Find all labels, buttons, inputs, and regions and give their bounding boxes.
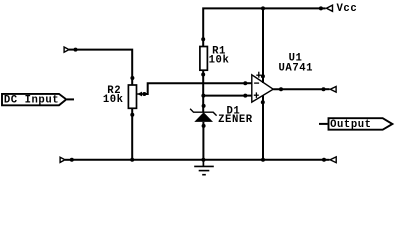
junction dot at top-left pin bbox=[74, 48, 78, 52]
resistor R1 body bbox=[200, 47, 208, 71]
connector pin bottom-left bbox=[60, 157, 72, 162]
wire Vcc top rail bbox=[203, 8, 321, 46]
op-amp U1 plus input marker bbox=[254, 92, 259, 98]
pin dot U1 V- pin bbox=[261, 100, 265, 104]
op-amp U1 minus input marker bbox=[254, 82, 259, 84]
pin dot D1 anode bbox=[202, 124, 206, 128]
pin dot R1 pin 1 bbox=[201, 37, 205, 41]
pin dot R2 pin 2 bbox=[130, 113, 134, 117]
junction dot at bottom-left pin bbox=[70, 158, 74, 162]
svg-text:DC Input: DC Input bbox=[4, 94, 59, 106]
wire D1 anode to ground rail bbox=[202, 122, 204, 160]
wire op-amp negative supply to ground rail bbox=[262, 96, 264, 160]
junction dot ground rail at ground symbol bbox=[201, 158, 205, 162]
junction dot ground rail at op-amp supply bbox=[261, 158, 265, 162]
wire op-amp output bbox=[273, 88, 323, 90]
connector pin Vcc bbox=[321, 7, 326, 9]
junction dot reference node to non-inverting input bbox=[201, 94, 205, 98]
pin dot R2 pin 1 bbox=[130, 76, 134, 80]
wire R1 bottom to zener top bbox=[202, 70, 204, 112]
potentiometer R2 wiper arrow bbox=[137, 92, 144, 97]
wire R2 wiper to op-amp inverting input bbox=[144, 83, 245, 94]
junction dot output wire end bbox=[322, 87, 326, 91]
wire stub inverting input bbox=[245, 82, 252, 84]
wire stub non-inverting input bbox=[245, 95, 252, 97]
op-amp U1 positive supply marker bbox=[256, 72, 261, 78]
connector pin top-left bbox=[64, 47, 75, 52]
svg-text:10k: 10k bbox=[103, 94, 124, 106]
junction dot R2 at ground rail bbox=[130, 158, 134, 162]
connector pin bottom-right bbox=[324, 159, 330, 161]
net flag DC Input bbox=[2, 94, 66, 106]
junction dot top rail at Vcc pin bbox=[319, 6, 323, 10]
ground bbox=[194, 160, 214, 175]
pin dot U1 output bbox=[279, 87, 283, 91]
wire reference node to op-amp non-inverting input bbox=[203, 95, 245, 97]
potentiometer R2 body bbox=[128, 85, 136, 108]
pin dot D1 cathode bbox=[202, 104, 206, 108]
svg-text:10k: 10k bbox=[209, 54, 230, 66]
net flag Output bbox=[329, 118, 393, 131]
op-amp U1 triangle bbox=[252, 75, 273, 102]
svg-text:UA741: UA741 bbox=[279, 63, 314, 75]
svg-text:Vcc: Vcc bbox=[337, 3, 358, 15]
svg-text:Output: Output bbox=[330, 119, 371, 131]
pin dot U1 non-inverting input bbox=[243, 94, 247, 98]
wire stub at Output flag bbox=[319, 123, 328, 125]
junction dot top rail op-amp supply bbox=[261, 6, 265, 10]
connector pin output bbox=[324, 88, 330, 90]
wire stub at DC Input flag bbox=[67, 98, 74, 100]
pin dot R2 wiper bbox=[142, 92, 146, 96]
pin dot R1 pin 2 bbox=[201, 73, 205, 77]
junction dot ground rail end bbox=[322, 158, 326, 162]
wire op-amp positive supply from top rail bbox=[262, 8, 264, 83]
wire from top-left pin to R2 top bbox=[76, 50, 133, 85]
pin dot U1 inverting input bbox=[243, 81, 247, 85]
zener diode D1 bbox=[190, 109, 217, 122]
wire ground rail bbox=[72, 159, 324, 161]
svg-text:ZENER: ZENER bbox=[218, 114, 253, 126]
wire R2 bottom to ground rail bbox=[131, 108, 133, 160]
pin dot U1 V+ pin bbox=[261, 74, 265, 78]
